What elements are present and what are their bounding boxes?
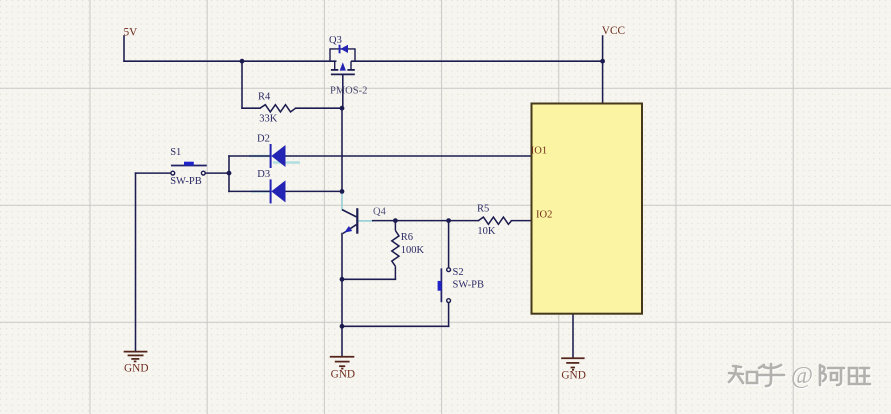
知 right (口) [747,372,757,383]
wire S2 top [448,221,450,268]
transistor Q4 [342,208,357,234]
svg-text:IO1: IO1 [531,145,547,156]
wire D3 lead [229,190,271,192]
Q3 channel arrow [340,62,346,70]
wire S2 bottom [448,303,450,327]
cyan net-highlight underlays [249,156,300,191]
wire highlight Q4 collector (cyan segment) [342,193,345,211]
svg-text:GND: GND [561,369,585,381]
wire S1 right [205,172,229,174]
wire highlight Q4 base (cyan segment) [358,220,373,222]
resistor R4 [260,105,296,112]
乎 [758,364,784,386]
svg-text:GND: GND [331,368,355,380]
旺 right (王) [859,368,870,384]
resistor R6 [392,221,399,280]
ground (middle) [330,357,355,369]
旺 left (日) [849,368,857,384]
svg-text:10K: 10K [477,226,496,237]
阿 right (可) [828,368,844,385]
wire R4 left lead [242,107,260,109]
wire Q4 emitter vertical [341,234,343,356]
wire R4 right lead [296,107,342,109]
wire gate to D3 junction [341,108,343,192]
junction base / R6 [393,218,398,223]
junction at VCC rail [600,59,605,64]
svg-text:@: @ [791,363,813,389]
svg-text:GND: GND [124,362,148,374]
IC U1 body [532,104,643,314]
svg-text:Q4: Q4 [373,206,387,217]
junction S1 / diodes [227,171,232,176]
svg-text:33K: 33K [259,114,278,125]
svg-text:R5: R5 [477,203,489,214]
wire IC gnd drop [572,314,574,358]
wire Q4 base row [373,220,479,222]
ground (left) [124,352,148,362]
switch S2 [438,268,451,303]
diode D2 [270,144,286,168]
wire D2 to IO1 [286,155,532,157]
transistor Q3 PMOS symbol [330,49,355,75]
wire R6 bottom [342,278,396,280]
阿 left (阝) [820,365,826,385]
power port 5V stub [123,36,125,61]
svg-text:S2: S2 [453,267,464,278]
svg-text:SW-PB: SW-PB [453,280,485,291]
junction emitter / R6 bottom [340,277,345,282]
svg-text:VCC: VCC [602,25,625,37]
wire S1 gnd drop [135,173,137,350]
svg-text:D2: D2 [257,134,270,145]
svg-text:PMOS-2: PMOS-2 [330,85,367,96]
svg-text:S1: S1 [170,147,181,158]
junction base / S2 [446,218,451,223]
svg-text:SW-PB: SW-PB [170,176,202,187]
junction D3 / collector [340,189,345,194]
wire highlight D2 right [273,161,300,163]
wire VCC vertical [602,36,604,105]
wire D2 lead [229,155,271,157]
svg-text:100K: 100K [401,245,425,256]
知 left (矢) [729,366,743,383]
wire R4 drop [241,61,243,108]
diode D3 [270,179,286,203]
wire highlight D3 lead [251,190,270,192]
wire S1 left [136,172,171,174]
resistor R5 [478,217,511,224]
wire highlight D2 lead [249,155,270,157]
wire bottom rail [342,325,449,327]
svg-text:D3: D3 [257,169,270,180]
wire diode branch vertical [228,156,230,191]
junction R4 / gate [340,106,345,111]
svg-text:IO2: IO2 [536,210,552,221]
svg-text:Q3: Q3 [329,35,342,46]
wire top rail left [124,60,336,62]
junction at 5V rail / R4 [240,59,245,64]
svg-text:5V: 5V [124,27,139,39]
svg-text:R6: R6 [401,232,413,243]
junction emitter / bottom rail [340,324,345,329]
svg-text:R4: R4 [258,92,271,103]
wire top rail right [352,60,603,62]
switch S1 [171,162,207,175]
watermark 知乎 @阿旺 [730,365,871,387]
wire Q3 gate vertical [342,74,344,108]
wire D3 to node [286,190,343,192]
Q3 body diode [339,45,348,54]
ground (right, IC) [561,358,584,370]
Q4 emitter arrow [344,226,352,233]
wire R5 right lead [512,220,532,222]
